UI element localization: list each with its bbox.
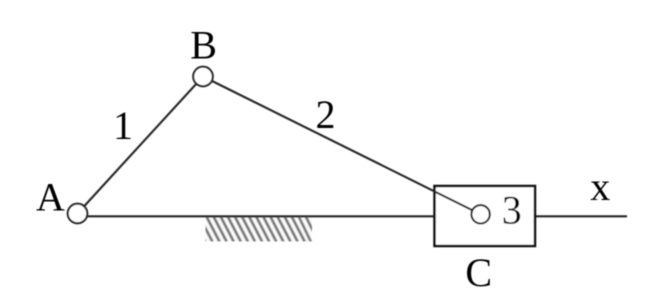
joint C circle (471, 205, 489, 223)
svg-text:2: 2 (316, 92, 336, 137)
svg-text:A: A (36, 175, 65, 220)
joint A circle (68, 204, 88, 224)
svg-text:3: 3 (502, 188, 522, 233)
svg-text:1: 1 (113, 103, 133, 148)
link 2 (B to C) (203, 77, 481, 215)
link 1 (A to B) (78, 77, 204, 214)
wire x-axis line (80, 215, 627, 217)
joint B circle (193, 67, 213, 87)
slider block 3 (435, 186, 536, 246)
svg-text:B: B (190, 22, 217, 67)
svg-text:C: C (465, 250, 492, 295)
ground hatching (192, 216, 326, 242)
svg-text:x: x (590, 164, 610, 209)
